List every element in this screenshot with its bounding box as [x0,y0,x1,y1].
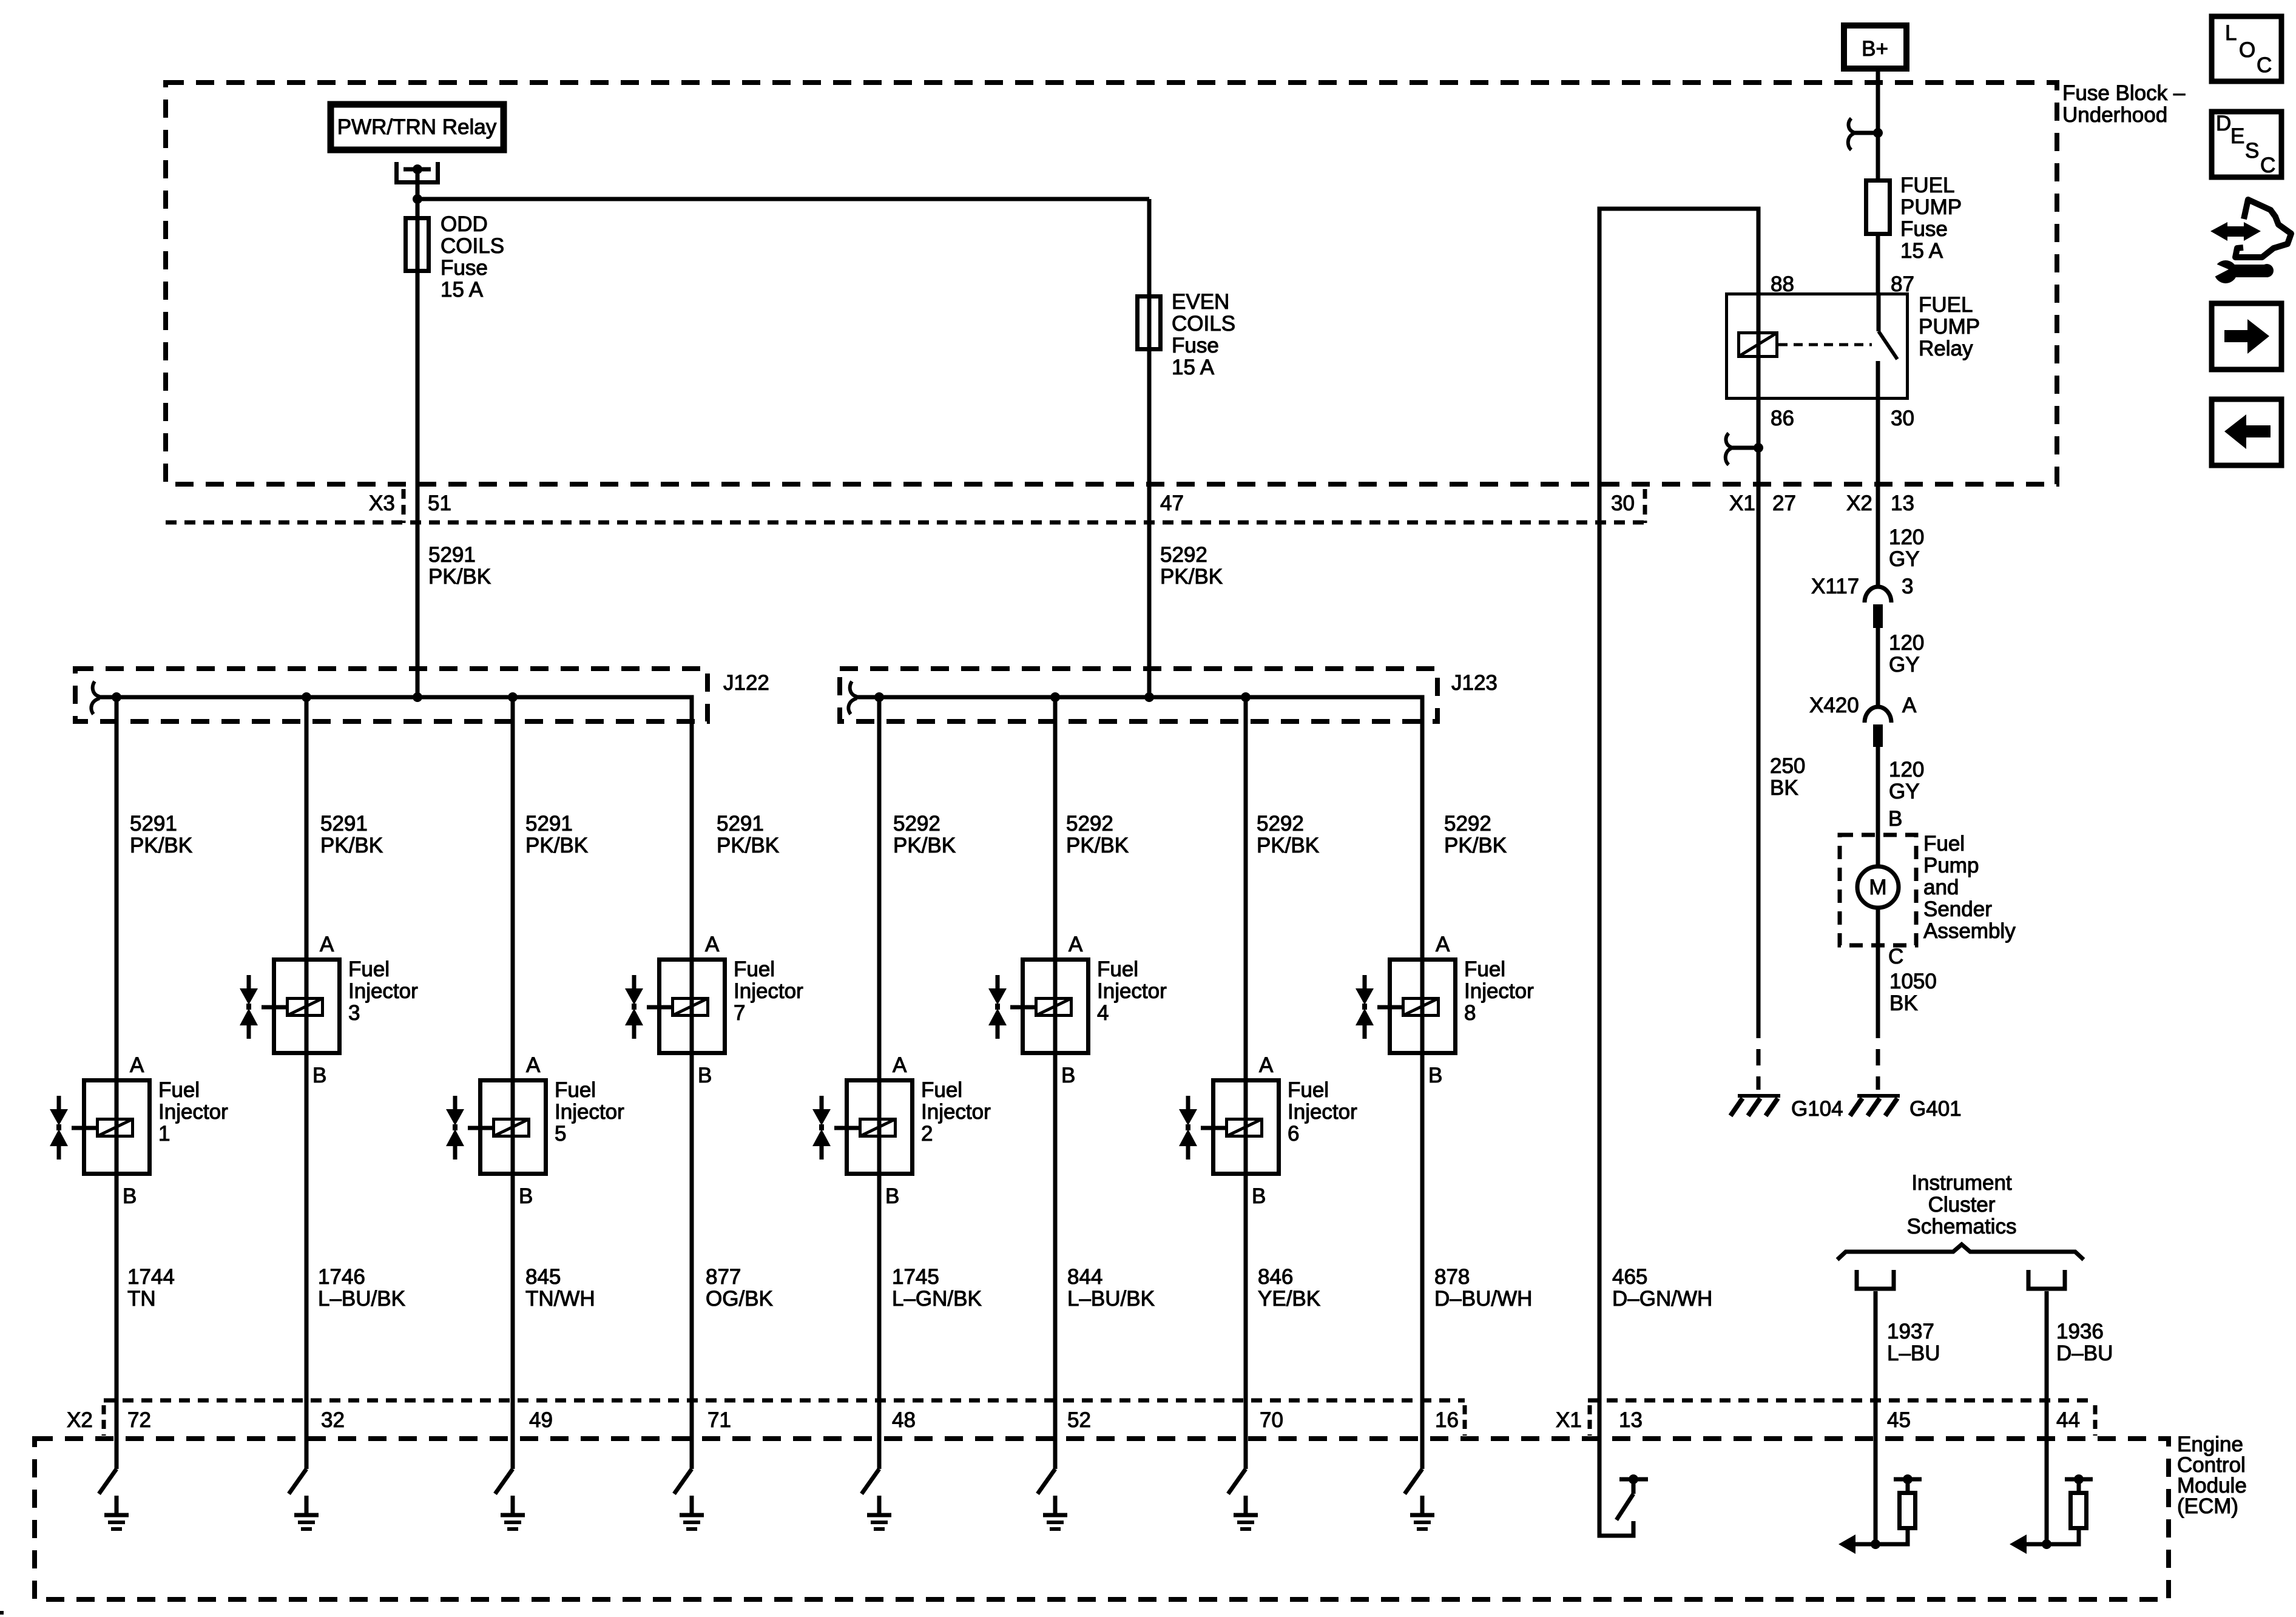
svg-text:L–BU/BK: L–BU/BK [318,1287,405,1311]
driver switch blade wire 52 [1038,1469,1055,1494]
svg-text:1745: 1745 [892,1265,939,1289]
ground symbol under pin 52 [1043,1496,1067,1529]
wire injector 3 drop [305,697,309,1469]
connector X3 dotted line (fuse block bottom connector row) [166,521,1645,525]
injector 3 coil [288,999,323,1016]
fuel injector 6 [1179,1053,1357,1208]
wire relay pin 88 loop to ECM pin 13 (465 D-GN/WH) [1599,209,1758,1536]
svg-text:86: 86 [1771,407,1794,430]
svg-text:Fuse Block –: Fuse Block – [2062,81,2186,105]
svg-text:845: 845 [525,1265,561,1289]
PWR/TRN Relay feed box [331,104,504,150]
svg-text:15 A: 15 A [1900,239,1943,263]
svg-text:L: L [2225,21,2237,45]
svg-text:Fuel: Fuel [1923,832,1965,856]
svg-text:120: 120 [1889,631,1924,655]
svg-text:E: E [2230,124,2244,148]
svg-text:PUMP: PUMP [1919,315,1980,339]
icon back arrow [2224,414,2271,449]
injector 3 valve symbol [247,975,251,1039]
connector boundary marker right of pin 30 [1643,489,1647,523]
svg-text:COILS: COILS [1172,312,1235,336]
driver switch blade wire 71 [674,1469,692,1494]
svg-text:BK: BK [1889,991,1918,1015]
injector 8 coil [1403,999,1439,1016]
icon back arrow box [2212,399,2281,465]
svg-text:5291: 5291 [525,812,573,836]
rail T-bar pin 45 [1894,1477,1922,1482]
svg-text:Injector: Injector [1464,979,1534,1003]
injector 1 box [84,1081,150,1174]
resistor lead bottom pin 44 [2047,1530,2079,1544]
svg-text:PK/BK: PK/BK [525,834,588,857]
svg-text:8: 8 [1464,1001,1476,1025]
injector 5 valve symbol [453,1096,458,1160]
svg-text:4: 4 [1097,1001,1109,1025]
injector 7 coil [673,999,708,1016]
svg-text:PK/BK: PK/BK [1160,565,1223,589]
svg-text:1936: 1936 [2056,1320,2104,1343]
wire injector 7 drop [690,957,694,1469]
ECM connector X2 dotted row [104,1399,1465,1403]
svg-text:3: 3 [348,1001,360,1025]
svg-text:A: A [1069,933,1083,956]
svg-text:32: 32 [321,1408,345,1432]
svg-text:877: 877 [706,1265,741,1289]
svg-text:L–BU/BK: L–BU/BK [1067,1287,1155,1311]
svg-text:846: 846 [1258,1265,1293,1289]
svg-text:44: 44 [2056,1408,2080,1432]
svg-text:L–BU: L–BU [1887,1342,1940,1365]
icon vehicle outline [2235,200,2291,257]
svg-text:Injector: Injector [921,1100,991,1124]
svg-text:250: 250 [1770,754,1805,778]
svg-text:15 A: 15 A [1172,356,1215,379]
wire relay coil vertical pin 88 to 86 [1757,292,1761,400]
switch T-bar [1619,1477,1648,1482]
svg-text:B: B [1252,1184,1266,1208]
node splice dot on pin 86 wire [1754,443,1763,453]
svg-text:Injector: Injector [348,979,418,1003]
svg-text:M: M [1869,876,1886,899]
svg-text:Underhood: Underhood [2062,103,2167,127]
svg-text:1937: 1937 [1887,1320,1934,1343]
node J123 dot feed [1144,692,1154,702]
svg-text:5291: 5291 [320,812,368,836]
injector 7 coil diagonal [673,999,708,1016]
icon wrench [2210,260,2274,283]
svg-text:D–BU/WH: D–BU/WH [1434,1287,1532,1311]
svg-text:TN/WH: TN/WH [525,1287,595,1311]
icon forward arrow [2224,319,2269,354]
driver switch blade wire 32 [289,1469,306,1494]
injector 7 tick to valve [647,1005,671,1010]
injector 2 tick to valve [834,1126,859,1130]
instrument cluster terminal bracket wire 1937 [1857,1270,1894,1289]
injector 2 valve symbol [820,1096,824,1160]
svg-text:Injector: Injector [1097,979,1167,1003]
injector 2 coil diagonal [860,1119,896,1136]
injector 6 box [1214,1081,1279,1174]
resistor R pin 44 [2071,1493,2087,1528]
svg-text:B: B [1888,807,1902,831]
node dot resistor top pin 45 [1903,1474,1913,1484]
svg-text:EVEN: EVEN [1172,290,1229,314]
svg-text:5291: 5291 [130,812,177,836]
wire from B+ to fuel pump fuse [1876,72,1880,178]
svg-text:Assembly: Assembly [1923,919,2016,943]
svg-text:G401: G401 [1909,1097,1962,1121]
svg-text:FUEL: FUEL [1919,293,1973,317]
driver switch blade wire 70 [1228,1469,1246,1494]
svg-text:PK/BK: PK/BK [428,565,491,589]
ECM connector X1 dotted row [1588,1399,2095,1403]
injector 4 coil [1036,999,1072,1016]
svg-text:FUEL: FUEL [1900,174,1954,197]
boundary marker X2 left [102,1405,106,1436]
svg-text:C: C [2257,53,2272,77]
svg-text:Fuse: Fuse [441,256,488,280]
wire injector 5 drop [511,697,515,1469]
switch blade pin13 [1616,1494,1633,1520]
fuel injector 2 [812,1053,991,1208]
fuel injector 3 [240,933,418,1087]
node junction to even coils branch [413,194,422,204]
injector 8 valve symbol [1363,975,1367,1039]
svg-text:120: 120 [1889,758,1924,781]
svg-text:Injector: Injector [158,1100,228,1124]
resistor lead top pin 45 [1906,1481,1910,1491]
svg-text:B: B [123,1184,137,1208]
svg-text:16: 16 [1435,1408,1459,1432]
relay FUEL PUMP Relay box [1727,294,1908,399]
svg-text:Injector: Injector [734,979,803,1003]
svg-text:Fuel: Fuel [348,957,390,981]
ground G104 chassis symbol [1730,1096,1780,1116]
svg-text:30: 30 [1891,407,1914,430]
svg-text:PK/BK: PK/BK [130,834,192,857]
svg-text:D: D [2216,112,2231,135]
svg-text:X1: X1 [1556,1408,1582,1432]
svg-text:PUMP: PUMP [1900,195,1962,219]
ground G401 chassis symbol [1850,1096,1900,1116]
svg-text:Instrument: Instrument [1911,1171,2012,1195]
splice pack J122 dashed box [75,669,707,721]
svg-text:PWR/TRN Relay: PWR/TRN Relay [337,115,497,139]
svg-text:COILS: COILS [441,234,504,258]
B+ battery feed box [1844,25,1906,69]
wire 1936 D-BU to ECM pin 44 [2045,1291,2049,1544]
icon vehicle double arrow [2210,222,2261,241]
svg-text:B: B [312,1064,326,1087]
svg-text:X117: X117 [1811,575,1859,598]
svg-text:A: A [893,1053,907,1077]
svg-text:A: A [526,1053,541,1077]
wire 120 GY segment 2 [1876,628,1880,707]
svg-text:GY: GY [1889,653,1920,677]
node J123 dot wire5 [874,692,884,702]
svg-text:A: A [1902,694,1917,717]
svg-text:X1: X1 [1729,491,1755,515]
svg-text:PK/BK: PK/BK [1066,834,1129,857]
relay switch lower stub [1876,361,1880,400]
Fuse Block - Underhood dashed enclosure [166,83,2057,484]
svg-text:70: 70 [1260,1408,1283,1432]
J123 clip hooks [848,681,857,714]
injector 6 coil [1227,1119,1262,1136]
svg-text:Schematics: Schematics [1907,1215,2017,1238]
boundary marker X2 right [1463,1405,1467,1436]
injector 4 tick to valve [1010,1005,1035,1010]
wire relay pin 30 to fuel pump (120 GY) [1876,400,1880,587]
icon forward arrow box [2212,303,2281,370]
node J123 dot wire7 [1241,692,1251,702]
resistor network at ECM pin 45 [1838,1474,1922,1554]
svg-text:O: O [2239,38,2255,62]
node dot junction pin 44 [2042,1539,2051,1549]
wire relay pin 86 down (250 BK) [1757,400,1761,1022]
wire injector 6 drop [1244,697,1248,1469]
connector X420 symbol [1865,707,1891,723]
svg-text:1050: 1050 [1889,970,1937,993]
node dot pin13 switch [1629,1474,1638,1484]
J122 clip hooks [91,681,100,714]
svg-text:13: 13 [1619,1408,1643,1432]
svg-text:Fuel: Fuel [1288,1078,1329,1102]
svg-text:TN: TN [127,1287,156,1311]
instrument cluster terminal bracket wire 1936 [2028,1270,2065,1289]
svg-text:1746: 1746 [318,1265,365,1289]
svg-text:Fuse: Fuse [1172,334,1219,357]
svg-text:51: 51 [428,491,451,515]
svg-text:A: A [1436,933,1450,956]
fuel injector 5 [446,1053,624,1208]
svg-text:2: 2 [921,1122,933,1146]
injector 7 box [660,960,725,1053]
svg-text:YE/BK: YE/BK [1258,1287,1320,1311]
svg-text:15 A: 15 A [441,278,484,302]
wire into pump [1876,835,1880,866]
svg-text:45: 45 [1887,1408,1911,1432]
injector 4 valve symbol [996,975,1000,1039]
svg-text:1744: 1744 [127,1265,175,1289]
svg-text:A: A [705,933,720,956]
svg-text:X2: X2 [67,1408,93,1432]
svg-text:Injector: Injector [1288,1100,1357,1124]
injector 5 coil diagonal [494,1119,529,1136]
fuel injector 8 [1356,933,1534,1087]
svg-text:PK/BK: PK/BK [717,834,779,857]
injector 5 tick to valve [468,1126,492,1130]
icon LOC box [2212,16,2281,81]
svg-text:S: S [2245,139,2259,163]
icon DESC box [2212,112,2281,177]
svg-text:27: 27 [1772,491,1796,515]
svg-text:J122: J122 [723,671,769,695]
svg-text:878: 878 [1434,1265,1470,1289]
boundary marker X1 right [2093,1405,2098,1436]
svg-text:Sender: Sender [1923,897,1992,921]
node J123 dot wire6 [1050,692,1060,702]
Engine Control Module dashed box [35,1439,2169,1599]
driver switch blade wire 49 [495,1469,513,1494]
svg-text:ODD: ODD [441,212,488,236]
wire dashed to G104 [1757,1022,1761,1090]
svg-text:G104: G104 [1791,1097,1843,1121]
injector 2 coil [860,1119,896,1136]
svg-text:PK/BK: PK/BK [320,834,383,857]
svg-text:B: B [519,1184,533,1208]
fuel injector 7 [625,933,803,1087]
injector 3 tick to valve [262,1005,286,1010]
wire branch to EVEN COILS fuse [417,197,1149,201]
injector 1 tick to valve [72,1126,96,1130]
svg-text:B: B [1061,1064,1075,1087]
svg-text:Fuel: Fuel [1464,957,1505,981]
injector 8 tick to valve [1377,1005,1402,1010]
injector 4 box [1023,960,1089,1053]
relay output terminal bracket [397,162,438,183]
splice clip on B+ wire [1848,118,1878,150]
relay coil [1739,333,1777,357]
driver switch blade wire 16 [1405,1469,1422,1494]
svg-text:5292: 5292 [1160,543,1207,567]
fuse FUEL PUMP 15A [1866,181,1890,234]
splice pack J123 dashed box [840,669,1437,721]
J123 bus wire [856,697,1422,957]
svg-text:Fuel: Fuel [158,1078,200,1102]
resistor R pin 45 [1900,1493,1916,1528]
svg-text:5291: 5291 [428,543,476,567]
injector 1 coil [98,1119,133,1136]
injector 7 valve symbol [632,975,636,1039]
svg-text:GY: GY [1889,780,1920,803]
svg-text:C: C [1888,945,1903,968]
injector 8 box [1390,960,1456,1053]
svg-text:GY: GY [1889,547,1920,571]
wire dashed to G401 [1876,1022,1880,1090]
relay switch upper stub [1877,292,1881,331]
relay actuation dashed link [1778,343,1872,346]
svg-text:49: 49 [529,1408,553,1432]
ground symbol under pin 49 [501,1496,525,1529]
svg-text:Fuel: Fuel [1097,957,1138,981]
injector 1 valve symbol [57,1096,61,1160]
fuse EVEN COILS 15A [1138,297,1161,349]
arrow to other circuits pin 45 [1851,1542,1876,1547]
fuel injector 1 [50,1053,228,1208]
J122 bus wire [99,697,692,957]
svg-text:Fuel: Fuel [555,1078,596,1102]
page artifact dot [0,1611,4,1615]
node terminal dot [413,164,422,174]
switch stem [1632,1481,1636,1494]
svg-text:B+: B+ [1862,37,1888,61]
svg-text:C: C [2260,154,2275,177]
svg-text:B: B [885,1184,899,1208]
injector 3 box [274,960,340,1053]
svg-text:A: A [130,1053,144,1077]
svg-text:PK/BK: PK/BK [1444,834,1507,857]
wire injector 2 drop [877,697,882,1469]
resistor lead top pin 44 [2077,1481,2081,1491]
wire out of pump (1050 BK) [1876,908,1880,1022]
svg-text:X420: X420 [1809,694,1859,717]
fuel pump and sender assembly dashed box [1840,835,1916,945]
svg-text:13: 13 [1891,491,1914,515]
injector 1 coil diagonal [98,1119,133,1136]
wire 1937 L-BU to ECM pin 45 [1874,1291,1878,1544]
svg-text:465: 465 [1612,1265,1647,1289]
node J122 dot feed [413,692,422,702]
svg-text:6: 6 [1288,1122,1299,1146]
wire EVEN coils vertical [1147,199,1152,697]
injector 4 coil diagonal [1036,999,1072,1016]
svg-text:3: 3 [1902,575,1913,598]
fuse ODD COILS 15A [406,218,429,271]
svg-text:Fuel: Fuel [921,1078,962,1102]
svg-text:Injector: Injector [555,1100,624,1124]
svg-text:PK/BK: PK/BK [893,834,956,857]
driver switch blade wire 48 [862,1469,879,1494]
terminal tick [403,167,431,172]
ground symbol under pin 70 [1234,1496,1258,1529]
svg-text:5292: 5292 [1444,812,1491,836]
svg-text:(ECM): (ECM) [2177,1494,2238,1518]
svg-text:A: A [1259,1053,1274,1077]
injector 8 coil diagonal [1403,999,1439,1016]
boundary marker X1 left [1588,1405,1592,1436]
svg-text:PK/BK: PK/BK [1257,834,1319,857]
svg-text:Pump: Pump [1923,854,1979,877]
injector 6 coil diagonal [1227,1119,1262,1136]
svg-text:47: 47 [1160,491,1184,515]
driver switch blade wire 72 [99,1469,116,1494]
svg-text:Fuel: Fuel [734,957,775,981]
svg-text:5292: 5292 [1257,812,1304,836]
ground symbol under pin 71 [680,1496,704,1529]
svg-text:5: 5 [555,1122,566,1146]
ECM internal switch at pin 13 [1616,1474,1648,1520]
svg-text:Relay: Relay [1919,337,1973,360]
svg-text:D–GN/WH: D–GN/WH [1612,1287,1712,1311]
svg-text:OG/BK: OG/BK [706,1287,773,1311]
ground symbol under pin 16 [1410,1496,1434,1529]
injector 6 tick to valve [1201,1126,1225,1130]
node J122 dot wire3 [508,692,518,702]
svg-text:and: and [1923,876,1959,899]
resistor network at ECM pin 44 [2010,1474,2093,1554]
svg-text:X3: X3 [369,491,395,515]
svg-text:X2: X2 [1846,491,1872,515]
svg-text:L–GN/BK: L–GN/BK [892,1287,982,1311]
svg-text:A: A [320,933,334,956]
svg-text:30: 30 [1611,491,1635,515]
svg-text:B: B [698,1064,712,1087]
injector 2 box [847,1081,913,1174]
svg-text:Cluster: Cluster [1928,1193,1996,1217]
injector 3 coil diagonal [288,999,323,1016]
svg-text:J123: J123 [1451,671,1497,695]
wire injector 8 drop [1420,957,1425,1469]
node dot resistor top pin 44 [2074,1474,2084,1484]
svg-text:71: 71 [707,1408,731,1432]
svg-text:5291: 5291 [717,812,764,836]
node splice dot on B+ wire [1873,128,1883,138]
svg-text:5292: 5292 [1066,812,1113,836]
resistor lead bottom pin 45 [1876,1530,1908,1544]
svg-text:52: 52 [1067,1408,1091,1432]
